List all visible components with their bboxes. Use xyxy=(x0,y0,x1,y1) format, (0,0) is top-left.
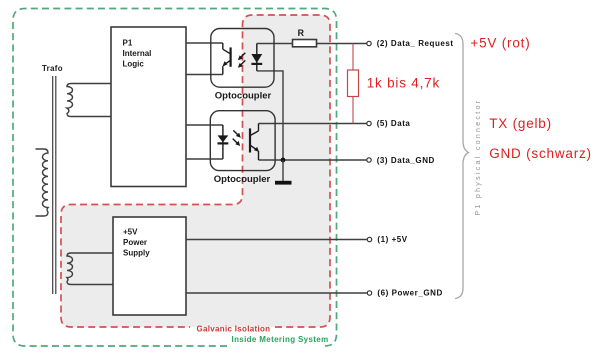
svg-text:(3) Data_GND: (3) Data_GND xyxy=(377,156,435,165)
svg-text:R: R xyxy=(298,28,305,38)
svg-text:(6) Power_GND: (6) Power_GND xyxy=(377,289,442,298)
svg-text:Trafo: Trafo xyxy=(42,64,63,73)
svg-text:Supply: Supply xyxy=(123,249,150,258)
svg-text:Logic: Logic xyxy=(123,60,145,69)
svg-text:+5V: +5V xyxy=(123,228,138,237)
svg-text:(2) Data_ Request: (2) Data_ Request xyxy=(377,39,454,48)
svg-text:(1) +5V: (1) +5V xyxy=(377,235,407,244)
svg-text:+5V (rot): +5V (rot) xyxy=(470,36,530,51)
svg-text:Internal: Internal xyxy=(123,49,152,58)
svg-text:Galvanic Isolation: Galvanic Isolation xyxy=(197,325,271,334)
svg-text:1k bis 4,7k: 1k bis 4,7k xyxy=(367,76,440,91)
svg-text:Inside Metering System: Inside Metering System xyxy=(232,335,329,344)
svg-text:P1: P1 xyxy=(123,39,133,48)
svg-text:P1 physical connector: P1 physical connector xyxy=(475,99,482,216)
svg-text:Optocoupler: Optocoupler xyxy=(215,91,272,102)
svg-text:(5) Data: (5) Data xyxy=(377,119,411,128)
svg-text:Optocoupler: Optocoupler xyxy=(214,174,271,185)
svg-text:TX (gelb): TX (gelb) xyxy=(489,116,552,131)
svg-text:Power: Power xyxy=(123,238,147,247)
svg-text:GND (schwarz): GND (schwarz) xyxy=(489,146,592,161)
